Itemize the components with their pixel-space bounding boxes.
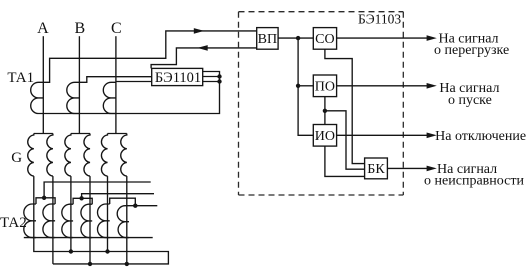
wire IO bottom to BK bottom-left input [325,146,365,176]
wire TA2 secondary stub 2 with tap [82,194,154,199]
block IO [313,125,336,147]
dashed box BE1103 top edge [239,11,404,13]
wire tap 1 right arm to coil 2 [44,198,55,204]
wire PO bottom to IO top [324,97,326,125]
node C phase line [115,36,117,133]
wire VP return to BE1101 top [151,48,257,69]
junction lead 6 on bus B [125,262,129,266]
node B phase line [78,36,80,133]
junction on BE1101 loop lower [217,79,221,83]
wire winding lead 4 [89,176,91,264]
wire tap 2 left arm to coil 3 [73,198,82,204]
node A phase line [42,36,44,133]
current transformer TA2 coil 3 [62,204,73,237]
generator G phase A winding [28,134,53,177]
svg-text:На отключение: На отключение [435,129,526,144]
svg-text:C: C [111,20,122,37]
junction PO-IO link [323,109,327,113]
svg-text:B: B [74,20,85,37]
wire winding lead 1 with star bus A loop [34,176,169,264]
svg-text:ТА2: ТА2 [0,215,27,231]
svg-text:БЭ1101: БЭ1101 [155,70,201,86]
wire TA2 secondary stub 3 [129,205,157,207]
junction tap 3 [133,204,137,208]
arrow SO output [427,35,437,41]
generator G phase C winding [101,134,126,177]
block VP [257,28,278,50]
wire BE1101 right middle [203,76,220,78]
svg-text:ИО: ИО [315,129,335,144]
svg-text:ВП: ВП [258,32,277,47]
junction lead 3 on bus A [69,249,73,253]
block BK [365,158,388,179]
wire TA2 common return bus [24,237,153,239]
wire BE1101 right bottom [203,81,220,83]
wire SO output overload signal [337,37,427,39]
wire trunk branch to PO [298,85,313,87]
svg-text:БК: БК [367,162,385,177]
junction lead 4 on bus B [88,262,92,266]
junction trunk at PO [296,84,300,88]
wire winding lead 5 [107,176,109,251]
wire VP to SO [278,37,313,39]
svg-text:ТА1: ТА1 [7,70,34,86]
arrow PO output [427,83,437,89]
current transformer TA2 coil 6 [117,206,129,238]
junction tap 2 [79,196,83,200]
junction trunk top [296,36,300,40]
current transformer TA2 coil 2 [43,204,55,238]
generator G phase B winding [65,134,90,177]
wire bridge coil 5 to tap 3 [110,198,136,206]
wire PO output start signal [337,85,427,87]
svg-text:ПО: ПО [315,80,335,95]
svg-text:о пуске: о пуске [448,93,492,108]
wire tap 1 left arm to coil 1 [36,198,44,204]
wire TA1-B tap to BE1101 [79,77,151,83]
svg-text:A: A [37,20,49,37]
current transformer TA2 coil 5 [97,204,109,238]
wire trunk from VP-SO node down to IO [298,38,313,135]
current transformer TA1 phase C coil [103,82,116,113]
current transformer TA1 phase A coil [31,82,44,113]
current transformer TA2 coil 4 [81,204,92,237]
block BE1101 [152,68,203,85]
block PO [313,75,336,97]
svg-text:о неисправности: о неисправности [424,174,524,189]
wire BK output fault signal [387,167,427,169]
junction on BE1101 loop upper [217,74,221,78]
svg-text:БЭ1103: БЭ1103 [358,12,401,27]
wire TA1-C tap to BE1101 [116,81,152,83]
dashed box BE1103 right edge [402,12,404,195]
wire TA1-A tap to VP (upper input) [43,31,256,82]
dashed box BE1103 bottom edge [239,194,404,196]
dashed box BE1103 left edge [238,12,240,195]
wire arrow to VP [194,28,204,34]
wire branch PO-IO node to BK lower-left input [325,111,365,169]
current transformer TA1 phase B coil [67,82,80,113]
junction tap 1 [42,196,46,200]
wire winding lead 3 [70,176,72,251]
wire SO bottom to BK upper-left input [325,49,365,163]
wire tap 2 right arm to coil 4 [82,198,93,204]
wire winding lead 6 [126,176,128,264]
wire BE1101 right top with return loop to TA1 common [43,72,219,114]
wire IO output trip signal [337,134,427,136]
block SO [313,28,336,50]
svg-text:СО: СО [315,32,334,47]
arrow IO output [427,133,437,139]
wire winding lead 2 [52,176,54,264]
wire arrow from VP [197,45,207,51]
current transformer TA2 coil 1 [24,204,36,238]
svg-text:G: G [11,150,22,166]
junction lead 5 on bus A [105,249,109,253]
wire TA2 secondary stub 1 with tap [44,182,151,198]
arrow BK output [427,166,437,172]
svg-text:о перегрузке: о перегрузке [434,43,509,58]
